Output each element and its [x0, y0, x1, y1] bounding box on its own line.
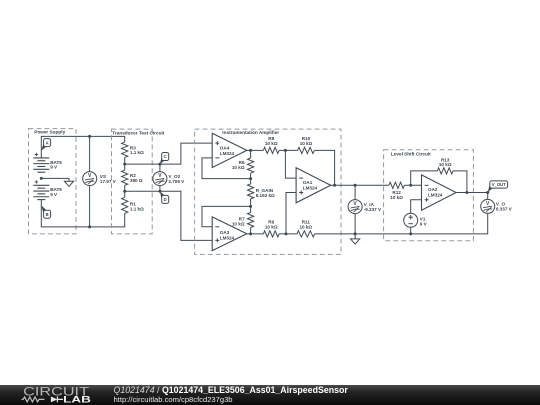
- wire R10 to OA1 output: [314, 150, 334, 185]
- node A flag: [41, 139, 50, 151]
- svg-text:10 kΩ: 10 kΩ: [390, 195, 403, 200]
- svg-text:Transducer Test Circuit: Transducer Test Circuit: [112, 130, 164, 135]
- Power Supply box: [29, 129, 77, 234]
- svg-text:OA3: OA3: [220, 230, 230, 235]
- Level Shift Circuit box: [384, 150, 474, 241]
- svg-text:9 V: 9 V: [50, 165, 58, 170]
- junction V_IA top: [354, 184, 357, 187]
- Transducer Test Circuit box: [112, 129, 165, 234]
- resistor R7: [232, 206, 254, 234]
- svg-text:V_OUT: V_OUT: [492, 182, 506, 187]
- op-amp OA4: [212, 133, 247, 167]
- wire OA4 feedback: [202, 158, 251, 179]
- svg-text:LM324: LM324: [303, 186, 318, 191]
- svg-text:1.1 kΩ: 1.1 kΩ: [130, 206, 144, 211]
- wire OA1 non-inverting input: [286, 193, 296, 234]
- op-amp OA3: [212, 217, 247, 251]
- junction ground rail at V_IA: [354, 232, 357, 235]
- wire battery midpoint to ground: [41, 178, 69, 181]
- junction OA1 output: [333, 184, 336, 187]
- voltmeter VS: [83, 172, 117, 186]
- svg-text:17.97 V: 17.97 V: [100, 179, 117, 184]
- svg-text:http://circuitlab.com/cp8cfcd2: http://circuitlab.com/cp8cfcd237g3b: [114, 395, 233, 404]
- junction R8-R10: [284, 149, 287, 152]
- svg-text:LAB: LAB: [63, 394, 91, 404]
- node V_OUT flag: [488, 181, 508, 193]
- wire V_O leads: [411, 193, 488, 234]
- resistor R11: [297, 220, 315, 238]
- junction ground rail at V1: [409, 232, 412, 235]
- svg-text:OA2: OA2: [428, 187, 438, 192]
- footer title text: [114, 385, 349, 404]
- wire R13 to OA2 output: [453, 171, 467, 193]
- ground (output rail): [351, 239, 360, 244]
- wire R11 to V1 bottom rail: [315, 233, 411, 235]
- wire R8 to R10: [279, 149, 298, 151]
- svg-text:10 kΩ: 10 kΩ: [439, 162, 452, 167]
- svg-text:D: D: [164, 197, 167, 202]
- resistor R13: [437, 157, 453, 174]
- resistor R6: [232, 150, 254, 178]
- svg-text:C: C: [164, 154, 167, 159]
- resistor R10: [298, 136, 315, 154]
- wire OA2 output: [456, 192, 488, 194]
- wire VS bottom lead: [89, 186, 91, 227]
- battery BAT5: [33, 153, 62, 172]
- junction node C at divider: [123, 163, 126, 166]
- junction node D at meter: [158, 190, 161, 193]
- junction node C at meter: [158, 163, 161, 166]
- wire battery+ to top rail and R3 top: [41, 136, 124, 158]
- wire R3-R2 node C: [125, 143, 213, 164]
- junction between batteries: [40, 177, 43, 180]
- svg-text:LM324: LM324: [220, 151, 235, 156]
- voltmeter V_IA: [348, 200, 382, 214]
- battery BAT6: [33, 180, 62, 199]
- junction OA2 output feedback: [465, 191, 468, 194]
- Instrumentation Amplifier box: [195, 129, 341, 254]
- resistor R3: [122, 142, 145, 157]
- svg-text:10 kΩ: 10 kΩ: [232, 221, 245, 226]
- resistor R8: [263, 136, 279, 154]
- wire OA3 feedback: [202, 206, 251, 226]
- junction VS bottom: [88, 225, 91, 228]
- svg-text:10 kΩ: 10 kΩ: [299, 224, 312, 229]
- svg-text:8.163 kΩ: 8.163 kΩ: [256, 193, 275, 198]
- resistor R2: [122, 164, 143, 191]
- wire R2-R1 node D: [125, 191, 213, 240]
- junction R9-R11: [285, 232, 288, 235]
- svg-text:LM324: LM324: [428, 193, 443, 198]
- svg-text:10 kΩ: 10 kΩ: [265, 224, 278, 229]
- junction VS top: [88, 135, 91, 138]
- wire VS top lead: [89, 136, 91, 171]
- wire OA3 output: [247, 233, 263, 235]
- resistor R9: [263, 220, 279, 238]
- svg-text:A: A: [46, 140, 49, 145]
- junction R6 bottom: [249, 177, 252, 180]
- wire V_O2 leads: [159, 164, 161, 191]
- resistor R12: [389, 182, 405, 200]
- svg-text:LM324: LM324: [220, 236, 235, 241]
- wire R9 to R11: [279, 233, 297, 235]
- node B flag: [41, 205, 50, 218]
- op-amp OA1: [296, 168, 331, 203]
- voltmeter V_O2: [153, 172, 185, 186]
- junction OA4 output: [249, 149, 252, 152]
- junction V_OUT node: [486, 191, 489, 194]
- wire OA1 inverting input: [285, 150, 296, 178]
- svg-text:10 kΩ: 10 kΩ: [265, 141, 278, 146]
- source V1: [404, 213, 428, 234]
- wire battery- to bottom rail and R1 bottom: [41, 200, 124, 227]
- junction node D at divider: [123, 190, 126, 193]
- CircuitLab logo wordmark: [22, 384, 92, 404]
- wire OA1 output to R12: [331, 184, 389, 186]
- svg-text:2.706 V: 2.706 V: [168, 179, 185, 184]
- svg-text:0.337 V: 0.337 V: [496, 207, 513, 212]
- svg-text:OA1: OA1: [303, 180, 313, 185]
- svg-text:Power Supply: Power Supply: [34, 130, 65, 135]
- voltmeter V_O: [481, 199, 513, 213]
- ground (power supply): [64, 181, 73, 186]
- junction R_GAIN bottom: [249, 205, 252, 208]
- op-amp OA2: [422, 175, 457, 210]
- wire OA2 non-inverting input: [411, 200, 422, 214]
- junction OA3 output: [249, 232, 252, 235]
- svg-text:1.1 kΩ: 1.1 kΩ: [130, 150, 144, 155]
- resistor R_GAIN: [248, 179, 276, 207]
- svg-text:9 V: 9 V: [50, 192, 58, 197]
- svg-text:Level Shift Circuit: Level Shift Circuit: [391, 152, 431, 157]
- wire OA2 feedback: [411, 171, 438, 185]
- node C flag: [160, 153, 169, 165]
- svg-text:390 Ω: 390 Ω: [130, 178, 143, 183]
- svg-text:10 kΩ: 10 kΩ: [300, 141, 313, 146]
- wire V_IA leads: [354, 185, 356, 239]
- wire OA4 output: [247, 149, 263, 151]
- svg-text:10 kΩ: 10 kΩ: [232, 165, 245, 170]
- svg-text:Instrumentation Amplifier: Instrumentation Amplifier: [222, 130, 279, 135]
- junction OA2 inverting node: [409, 184, 412, 187]
- node D flag: [160, 191, 169, 203]
- svg-text:9 V: 9 V: [420, 221, 428, 226]
- svg-text:Q1021474 / Q1021474_ELE3506_As: Q1021474 / Q1021474_ELE3506_Ass01_Airspe…: [114, 385, 349, 395]
- wire R12 to OA2: [404, 184, 421, 186]
- svg-text:-9.337 V: -9.337 V: [364, 207, 382, 212]
- resistor R1: [122, 191, 145, 213]
- svg-text:B: B: [46, 212, 49, 217]
- svg-text:OA4: OA4: [220, 146, 230, 151]
